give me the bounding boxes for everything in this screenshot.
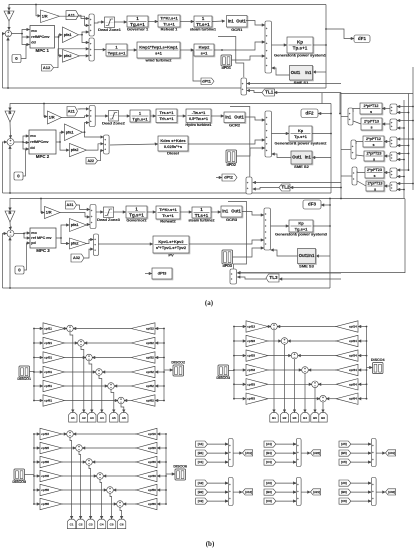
wire pfa1 to bar b — [82, 35, 89, 43]
junction MPC out — [58, 36, 60, 38]
svg-text:(b): (b) — [206, 540, 215, 548]
tag A4 — [98, 413, 106, 423]
gain cpf32 — [131, 352, 155, 363]
junction TL2 — [340, 187, 342, 189]
junction left bus bTL2 — [33, 342, 35, 344]
tag A31 — [386, 450, 396, 456]
mux g21 — [296, 478, 301, 506]
wire reheat to steam — [180, 21, 194, 23]
wire tie stub 12 — [397, 189, 404, 191]
wire area3 bottom feedback — [10, 237, 330, 288]
tag A21 — [311, 489, 321, 495]
junction g22 3 — [294, 461, 296, 463]
wire sum3 to MPC ref — [24, 234, 30, 239]
sum circle bTR1 — [271, 323, 278, 330]
svg-text:cpf53: cpf53 — [247, 382, 255, 386]
junction g31 1 — [369, 443, 371, 445]
wire rgain to sum bTL6 — [124, 400, 131, 402]
dead zone block Dead Zone3 — [97, 207, 120, 222]
junction tie stub 11 — [412, 183, 414, 185]
tie-line sum bar left 2 — [351, 140, 356, 159]
sum circle bBL4 — [97, 473, 104, 480]
wire gain to sum bTL3 — [65, 357, 86, 359]
svg-text:s: s — [372, 143, 374, 147]
gain cpf26 — [136, 442, 157, 453]
wire MPC3 to pfa2 — [61, 238, 69, 244]
wire area2 bottom feedback — [10, 146, 331, 193]
tag B4 — [301, 413, 309, 423]
svg-text:C5: C5 — [110, 523, 114, 527]
tie-line diff bar 3a — [390, 168, 397, 178]
gain cpf23 — [246, 335, 268, 346]
gain cpf45 — [40, 470, 62, 481]
svg-text:cpf23: cpf23 — [247, 339, 255, 343]
tag A22 — [86, 158, 98, 164]
svg-text:[A12]: [A12] — [245, 490, 252, 494]
gain cpf41 — [43, 366, 65, 377]
junction left bus bBL3 — [33, 461, 35, 463]
wire rgain to sum bTL4 — [102, 371, 131, 373]
svg-text:Tp.s+1: Tp.s+1 — [293, 45, 308, 50]
svg-text:Tr.s+1: Tr.s+1 — [162, 213, 174, 218]
wire gain to sum bTL1 — [65, 328, 67, 330]
svg-text:s: s — [370, 125, 372, 129]
tag A5 — [339, 441, 351, 447]
wire gen3 to trunk — [313, 225, 330, 227]
tag A12 — [243, 489, 253, 495]
wire sum down to tag bTR2 — [284, 344, 286, 412]
sum bar area1 a — [89, 14, 94, 36]
wire bus to gain bTR1 — [234, 326, 246, 328]
wire bus to gain bTR5 — [234, 383, 246, 385]
wire sum down to tag bBL6 — [120, 507, 122, 519]
tag C6 — [117, 519, 125, 529]
wire mux to A22 — [301, 452, 310, 454]
wire A12 feed — [54, 49, 89, 68]
junction g31 3 — [369, 461, 371, 463]
svg-text:0.5*Tw.s+1: 0.5*Tw.s+1 — [189, 117, 208, 121]
sum circle bTL1 — [67, 325, 74, 332]
tag B2 — [280, 413, 288, 423]
junction wind out — [221, 49, 223, 51]
svg-text:In1: In1 — [225, 114, 232, 119]
wire trunk area1 — [325, 5, 327, 89]
subsystem SMES1 — [290, 66, 314, 85]
junction g32 3 — [369, 500, 371, 502]
tag TL3 — [266, 274, 279, 282]
svg-text:A4: A4 — [100, 416, 104, 420]
junction MPC2 out — [59, 141, 61, 143]
svg-text:PV: PV — [168, 253, 174, 258]
mux g22 — [296, 439, 301, 467]
wire sum down to tag bTR6 — [322, 402, 324, 412]
junction left bus bTR1 — [233, 326, 235, 328]
junction dF3 tap — [329, 204, 331, 206]
svg-text:cpf36: cpf36 — [148, 460, 156, 464]
wire tie stub 11 — [397, 183, 413, 185]
wire bus to gain bTR6 — [234, 398, 246, 400]
wire rbus to rgain bTL6 — [155, 400, 164, 402]
svg-text:cpf61: cpf61 — [44, 399, 52, 403]
wire B3 to mux — [276, 491, 296, 493]
svg-text:2*pi*T12: 2*pi*T12 — [364, 104, 379, 108]
wire bar2 to wind — [94, 49, 106, 51]
svg-text:DISCO6: DISCO6 — [173, 464, 187, 468]
gain cpf21 — [43, 337, 65, 348]
subsystem DISCO6 — [173, 464, 187, 480]
wire B4 to mux — [276, 452, 296, 454]
svg-text:dd: dd — [31, 40, 36, 44]
wire sum down to tag bTL4 — [99, 375, 102, 412]
svg-text:[B4]: [B4] — [266, 451, 272, 455]
wind lag block — [106, 44, 128, 57]
wire rgain to sum bTR4 — [308, 369, 336, 371]
gain cpf62 — [131, 395, 155, 406]
tie-line block 2*pi*T12 (1a) — [360, 103, 383, 115]
wire rgain to sum bTL3 — [92, 357, 131, 359]
wire gain to sum bTR1 — [268, 326, 271, 328]
wire tie stub 9 — [397, 169, 408, 171]
wire tie stub 8 — [397, 159, 404, 161]
wire tie stub 1 — [397, 106, 413, 108]
svg-text:Kp: Kp — [297, 39, 303, 44]
junction droop tap3 — [40, 198, 42, 200]
wire dz to governor — [114, 21, 127, 23]
tag B3 — [264, 489, 276, 495]
wire sum down to tag bTR3 — [294, 359, 296, 413]
sum circle bTL3 — [86, 354, 93, 361]
reheat block Reheat 1 — [158, 15, 181, 32]
dead zone block Dead Zone1 — [98, 17, 121, 32]
wire sum down to tag bBL3 — [89, 465, 91, 519]
wire hydro to GCR2 — [211, 115, 224, 117]
svg-text:In1: In1 — [305, 155, 312, 160]
junction g11 2 — [226, 452, 228, 454]
tag B6 — [319, 413, 327, 423]
wire tie feedback to bar3 — [237, 272, 341, 274]
wire block to sumbar 3b — [357, 181, 366, 186]
svg-text:dF3: dF3 — [308, 202, 317, 207]
svg-text:pfa2: pfa2 — [71, 148, 79, 152]
load disturbance dPD1 — [221, 55, 232, 70]
svg-text:cpf52: cpf52 — [146, 384, 154, 388]
svg-text:[A2]: [A2] — [198, 481, 204, 485]
gain cpf35 — [40, 456, 62, 467]
wire pfa1 to bar3 — [87, 224, 90, 227]
wire C3 to mux — [276, 500, 296, 502]
wire tie stub 2 — [397, 112, 408, 114]
junction right bus bTL5 — [163, 385, 165, 387]
wire MPC2 out — [56, 132, 64, 142]
wire right bus bTR — [366, 327, 368, 399]
svg-text:[C1]: [C1] — [198, 460, 204, 464]
junction right bus bTL4 — [163, 371, 165, 373]
wire trunk area2 — [330, 104, 332, 194]
tie-line block 2*pi*T13 (1b) — [361, 118, 383, 131]
subsystem DISCO4 — [371, 358, 386, 374]
wire rgain to sum bTL1 — [73, 328, 131, 330]
gain cpf24 — [336, 335, 358, 346]
wire A11 to mux — [79, 15, 89, 18]
wire gain to sum bTR2 — [268, 340, 281, 342]
sum junction area2 — [7, 139, 14, 146]
wire droop tap area2 — [44, 104, 47, 117]
svg-text:dPD1: dPD1 — [222, 66, 231, 70]
svg-text:cpf14: cpf14 — [349, 325, 357, 329]
junction tie stub 4 — [403, 127, 405, 129]
wire pfa1 to bar — [79, 32, 89, 35]
svg-text:Twp2.s+1: Twp2.s+1 — [108, 50, 127, 55]
wire B1 to mux — [208, 452, 229, 454]
wire bus to DISCO6 — [166, 473, 175, 475]
svg-text:dPt2: dPt2 — [224, 175, 233, 180]
junction g32 1 — [369, 482, 371, 484]
junction g12 2 — [226, 491, 228, 493]
wire steam to GCR1 — [212, 20, 225, 23]
svg-text:2*pi*T12: 2*pi*T12 — [366, 137, 381, 141]
wire left feedback area1 — [3, 34, 5, 88]
wire bar3b to PV — [98, 243, 153, 245]
wire gain to sum bTL6 — [65, 400, 118, 402]
dead zone block Dead Zone2 — [102, 111, 125, 126]
svg-text:C2: C2 — [79, 523, 83, 527]
junction droop tap — [35, 4, 37, 6]
gain B2 frequency bias — [5, 110, 15, 122]
tie-line block 2*pi*T23 (3a) — [365, 167, 385, 179]
wire dz2 to tgh — [119, 115, 130, 117]
wire rbus to rgain bTR5 — [358, 383, 366, 385]
wire 1/R3 to bar — [60, 213, 90, 217]
wire bar to deadzone3 — [96, 211, 103, 213]
wire sum down to tag bTL6 — [121, 404, 124, 413]
junction right bus bBL4 — [165, 475, 167, 477]
wire A5 to mux — [351, 443, 371, 445]
gain pfa1 area3 — [70, 219, 87, 232]
tag A2 — [196, 480, 208, 486]
wire rbus to rgain bTL3 — [155, 357, 164, 359]
tie-line block 2*pi*T23 (2b) — [364, 151, 385, 162]
svg-text:cpf12: cpf12 — [146, 327, 154, 331]
svg-text:s²+Tpv1.s+Tpv2: s²+Tpv1.s+Tpv2 — [156, 245, 187, 250]
wire GCR1 to mux — [246, 21, 265, 26]
svg-text:(a): (a) — [205, 299, 214, 307]
svg-text:dd: dd — [30, 146, 35, 150]
wire gain to sum bTR3 — [268, 355, 291, 357]
junction area2 mpc — [22, 141, 24, 143]
controller MPC 3 — [30, 228, 56, 253]
wire diffbar to block 3b — [384, 185, 390, 187]
wire pfa1 to bar — [83, 123, 89, 133]
svg-text:2*pi*T13: 2*pi*T13 — [364, 119, 379, 123]
wire gain to sum bBL3 — [62, 461, 86, 463]
svg-text:cpf62: cpf62 — [146, 399, 154, 403]
wire mux to A12 — [233, 491, 242, 493]
junction g11 3 — [226, 461, 228, 463]
sum circle bBL2 — [76, 445, 83, 452]
svg-text:GCR1: GCR1 — [231, 27, 243, 32]
wire tie stub 5 — [397, 138, 413, 140]
svg-text:cpf45: cpf45 — [41, 474, 49, 478]
tag B5 — [339, 450, 351, 456]
hydro transient block — [156, 109, 178, 123]
svg-text:[C3]: [C3] — [266, 499, 272, 503]
junction left bus bBL4 — [33, 475, 35, 477]
svg-text:Kwp1*Twp1.s+Kwp1: Kwp1*Twp1.s+Kwp1 — [139, 44, 178, 49]
subsystem DISCO2 — [171, 360, 185, 376]
constant zero area1 — [12, 55, 21, 63]
svg-text:SME S1: SME S1 — [294, 80, 309, 85]
svg-text:[B5]: [B5] — [341, 451, 347, 455]
wire area1 bottom feedback — [8, 37, 326, 88]
generator block Generator and power system1 — [274, 37, 327, 58]
tag C3 — [264, 498, 276, 504]
svg-text:mo: mo — [31, 231, 37, 235]
wire diffbar to block 2b — [384, 155, 390, 157]
svg-text:[A1]: [A1] — [198, 442, 204, 446]
wire governor to reheat — [148, 21, 158, 23]
svg-text:A6: A6 — [122, 416, 126, 420]
tag B4 — [264, 450, 276, 456]
svg-text:B3: B3 — [293, 416, 297, 420]
svg-text:1: 1 — [135, 206, 138, 211]
wire C5 to mux — [351, 461, 371, 463]
subsystem DISCO1 — [17, 366, 31, 381]
wire bar2 to diesel — [110, 144, 158, 145]
tie-line diff bar 1b — [390, 119, 397, 130]
tag B1 — [196, 450, 208, 456]
wire steam2 to GCR3 — [211, 211, 221, 213]
gain cpf11 — [43, 323, 65, 334]
wire pfa1 to bar2 — [85, 132, 104, 137]
svg-text:B6: B6 — [321, 416, 325, 420]
svg-text:[A11]: [A11] — [245, 451, 252, 455]
svg-text:A22: A22 — [87, 159, 94, 163]
wire trunk to SMES2 — [312, 157, 331, 159]
scope dF1 — [354, 35, 370, 43]
junction left bus bBL5 — [33, 489, 35, 491]
svg-text:A2: A2 — [82, 416, 86, 420]
junction left bus bTL6 — [33, 400, 35, 402]
junction g22 2 — [294, 452, 296, 454]
wire sum2 to MPC mo — [14, 136, 29, 142]
wire sumbar out 2 — [341, 149, 351, 151]
svg-text:s: s — [373, 157, 375, 161]
wire rbus to rgain bTR1 — [358, 326, 366, 328]
wire dF2 vertical — [408, 94, 410, 172]
wire A32 to bar3b — [84, 249, 93, 258]
svg-text:Dead Zone1: Dead Zone1 — [98, 27, 121, 32]
wire bottom join3 — [3, 287, 11, 289]
tag C1 — [196, 459, 208, 465]
svg-text:pfa2: pfa2 — [64, 54, 72, 58]
wire dF3 vertical — [403, 100, 405, 198]
svg-text:Tr*Kr.s+1: Tr*Kr.s+1 — [159, 207, 177, 212]
wire A4 to mux — [276, 443, 296, 445]
svg-text:Trh.s+1: Trh.s+1 — [159, 116, 174, 121]
junction g12 3 — [226, 500, 228, 502]
scope dF3 — [303, 200, 321, 209]
constant zero area2 — [14, 172, 23, 180]
wire block to sumbar 2b — [356, 155, 364, 156]
junction right bus bTR4 — [366, 369, 368, 371]
svg-text:In1: In1 — [222, 209, 229, 214]
wire mux2 to generator — [272, 133, 289, 135]
svg-text:cpf33: cpf33 — [247, 354, 255, 358]
wire trunk to SMES3 — [316, 255, 330, 257]
svg-text:B2: B2 — [283, 416, 287, 420]
wire TL2 to bar — [253, 188, 279, 190]
wire block to sumbar 2a — [356, 142, 363, 145]
svg-text:Kp: Kp — [298, 220, 304, 225]
sum circle bTL2 — [78, 340, 85, 347]
junction left bus bTR2 — [233, 340, 235, 342]
gain 1/R3 droop — [45, 207, 61, 219]
svg-text:cpf46: cpf46 — [148, 474, 156, 478]
wire to MPC2 dd branch — [23, 143, 26, 150]
svg-text:mo: mo — [30, 134, 36, 138]
tag A32 — [386, 489, 396, 495]
wire gain to sum bTL5 — [65, 385, 108, 387]
wire mux to generator — [272, 44, 287, 46]
svg-text:pfa1: pfa1 — [64, 33, 72, 37]
svg-text:Diesel: Diesel — [167, 151, 179, 156]
subsystem DISCO5 — [12, 469, 26, 484]
gain cpf51 — [43, 380, 65, 391]
svg-text:cpf51: cpf51 — [44, 384, 52, 388]
tag A1 — [69, 413, 77, 423]
sum circle bTL4 — [96, 369, 103, 376]
svg-text:Reheat2: Reheat2 — [160, 219, 176, 224]
wire DISCO3 to bus — [229, 370, 235, 372]
junction left bus bTR6 — [233, 398, 235, 400]
wire A22 to bar2 — [98, 151, 104, 161]
tag A3 — [88, 413, 96, 423]
svg-text:dPt1: dPt1 — [202, 78, 211, 83]
wire rbus to rgain bTR4 — [358, 369, 366, 371]
svg-text:refMPCmv: refMPCmv — [31, 35, 50, 39]
wire gov2 to reheat2 — [147, 211, 156, 213]
svg-text:Dead Zone2: Dead Zone2 — [102, 121, 125, 126]
svg-text:s: s — [374, 187, 376, 191]
sum circle bTR5 — [312, 381, 319, 388]
svg-text:steam turbine1: steam turbine1 — [190, 28, 216, 32]
wire bus to gain bBL5 — [34, 489, 40, 491]
svg-text:cpf13: cpf13 — [247, 325, 255, 329]
wire to dPt2 — [216, 177, 222, 179]
junction left bus bBL6 — [33, 503, 35, 505]
gain pfa1 area2 — [65, 124, 83, 141]
gain cpf56 — [136, 484, 157, 495]
svg-text:[A4]: [A4] — [266, 442, 272, 446]
gain cpf66 — [136, 498, 157, 509]
gain pfa1 area1 — [63, 27, 79, 43]
wire left bus bTL — [33, 329, 35, 401]
mux g12 — [228, 478, 233, 506]
tie sum bar area3 — [230, 269, 237, 284]
svg-text:B4: B4 — [303, 416, 307, 420]
svg-text:[C5]: [C5] — [341, 460, 347, 464]
svg-text:cpf41: cpf41 — [44, 370, 52, 374]
wire dF1 vertical — [412, 67, 414, 190]
wire sumbar out 1 — [341, 116, 348, 118]
goto block dPt3 — [152, 268, 173, 280]
svg-text:A21: A21 — [68, 109, 75, 113]
wire sum down to tag bTR4 — [304, 373, 306, 412]
wire rbus to rgain bBL5 — [157, 489, 166, 491]
junction dF1 tap — [325, 28, 327, 30]
svg-text:A31: A31 — [67, 203, 74, 207]
wire sum to MPC mo — [12, 30, 30, 34]
